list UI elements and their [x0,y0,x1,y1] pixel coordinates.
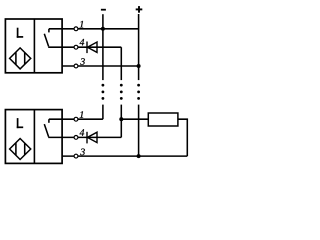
wire terminal3 U1 [62,65,139,67]
terminal circle U2 pin1 [74,117,78,121]
pin label 1 (U2) [80,111,84,117]
sensor U1 diamond bars [15,52,17,64]
junction dot bus-load [119,117,123,121]
pin label 3 (U2) [80,149,85,156]
wire terminal1 U1 [49,28,139,30]
wire terminal1 U2 [49,118,103,120]
wire terminal4 U2 [48,136,121,138]
sensor U2 proximity diamond [10,139,31,160]
diode VD2 triangle [87,132,97,142]
pin label 4 [80,39,85,45]
terminal circle U2 pin4 [74,136,78,140]
terminal circle U1 pin3 [74,64,78,68]
sensor U1 box [5,19,62,73]
plus rail upper [138,14,140,80]
resistor R load [148,113,178,126]
output bus upper [120,47,122,80]
diode VD1 bar [86,42,88,54]
sensor U2 letter L [17,118,23,128]
pin label 4 (U2) [80,129,85,135]
minus rail lower [102,105,104,120]
output bus lower [120,105,122,138]
ellipsis dots minus rail [102,84,105,100]
junction dot wire1-minus [101,27,105,31]
pin label 3 [80,58,85,65]
switch S1 blade [44,34,48,47]
junction dot wire3b-plus [137,154,141,158]
terminal circle U1 pin1 [74,27,78,31]
junction dot wire3-plus [137,64,141,68]
wire terminal3 U2 [62,155,187,157]
sensor U2 diamond bars [15,143,17,155]
switch S2 fixed contact stub [48,119,50,123]
diode VD2 bar [86,132,88,144]
plus label [136,6,143,13]
ellipsis dots plus rail [137,84,140,100]
sensor U2 box [5,110,62,164]
sensor U1 proximity diamond [10,48,31,69]
minus rail upper [102,14,104,80]
sensor U2 divider [33,110,35,164]
wire load right [178,119,187,156]
pin label 1 [80,21,84,27]
terminal circle U2 pin3 [74,154,78,158]
ellipsis dots output bus [120,84,123,100]
diode VD1 triangle [87,42,97,52]
wire terminal4 U1 [48,46,121,48]
sensor U1 divider [33,19,35,73]
switch S1 fixed contact stub [48,29,50,33]
plus rail lower [138,105,140,157]
switch S2 blade [44,124,48,137]
terminal circle U1 pin4 [74,45,78,49]
wire to load [121,118,148,120]
minus label [101,9,106,11]
sensor U1 letter L [17,28,23,38]
